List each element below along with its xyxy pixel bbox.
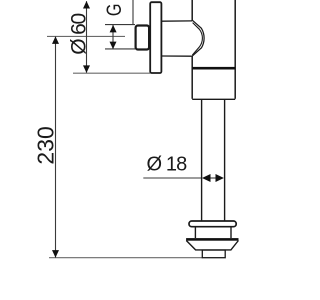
body box bottom edge (192, 98, 235, 100)
wire: inlet centerline extension (230 top) (47, 35, 125, 37)
trapezoid flange sides (186, 241, 238, 250)
arrow left Ø18 (202, 174, 211, 182)
body left edge lower (191, 56, 193, 99)
lower neck left edge (194, 227, 196, 238)
arrow up 230 (52, 36, 59, 44)
inlet nut (136, 26, 150, 50)
wire: G leader line (132, 0, 134, 25)
trapezoid flange top bar (186, 238, 238, 241)
svg-text:Ø 60: Ø 60 (68, 13, 91, 54)
wire: G bottom extension line (105, 48, 135, 50)
dimension G line (112, 25, 114, 49)
pipe left edge (201, 100, 203, 221)
wire: Ø18 leader line (143, 177, 202, 179)
arrow up Ø60 (83, 1, 90, 9)
dome inner curve (192, 23, 202, 56)
upper ring flange (189, 221, 236, 227)
svg-text:230: 230 (33, 126, 59, 164)
wall flange plate (150, 2, 161, 73)
svg-text:Ø 18: Ø 18 (147, 153, 188, 175)
body right edge (234, 0, 236, 99)
dome outer curve (192, 20, 204, 56)
body thick joint line (192, 67, 235, 70)
tailpiece (202, 250, 225, 258)
body left edge upper (191, 0, 193, 21)
arrow up G (110, 25, 117, 33)
dimension Ø60 line (86, 1, 88, 73)
arrow right Ø18 (216, 174, 224, 182)
wire: Ø18 center tick (211, 177, 216, 179)
wire: Ø60 bottom extension line (73, 72, 150, 74)
arrow down 230 (52, 250, 59, 258)
wire: bottom extension line (230 bottom) (49, 257, 203, 259)
pipe right edge (224, 100, 226, 221)
svg-text:G: G (103, 4, 127, 17)
neck bottom line (162, 55, 192, 57)
arrow down Ø60 (83, 65, 90, 73)
dimension 230 line (55, 37, 57, 258)
wire: G top extension line (105, 24, 135, 26)
neck top line (162, 20, 192, 22)
lower neck right edge (230, 227, 232, 238)
arrow down G (110, 42, 117, 50)
